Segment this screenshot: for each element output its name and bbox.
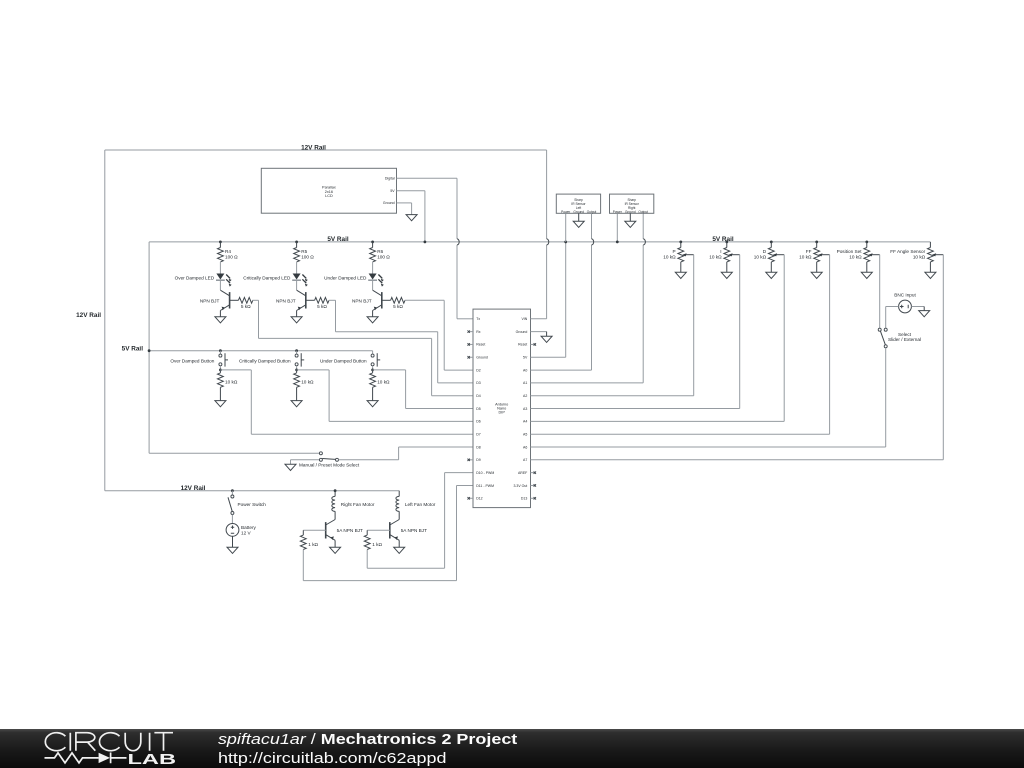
resistor R5 100 Ohm: [294, 242, 315, 262]
wire I pot to ground: [726, 262, 728, 272]
svg-text:10 kΩ: 10 kΩ: [709, 255, 722, 260]
junction 5V rail / button rail: [148, 349, 151, 352]
wire Sharp Left ground hook: [578, 213, 580, 221]
ground emitter ground (Critically Damped LED): [291, 317, 302, 323]
label Left Fan Motor: [405, 502, 436, 507]
svg-text:R5: R5: [301, 249, 307, 254]
label Sharp IR Sensor Right: [625, 198, 640, 210]
svg-text:Manual / Preset Mode Select: Manual / Preset Mode Select: [299, 462, 360, 467]
junction P pot at 5V rail: [679, 241, 682, 244]
svg-text:A1: A1: [523, 381, 527, 385]
ground I pot ground: [721, 272, 732, 278]
node 5V Rail (button rail wire): [149, 350, 373, 352]
junction Position Set pot at 5V rail: [865, 241, 868, 244]
resistor 1 kOhm base (Right Fan Motor): [300, 530, 318, 549]
junction Over Damped Button output: [219, 369, 222, 372]
svg-text:R6: R6: [377, 249, 383, 254]
svg-text:100 Ω: 100 Ω: [301, 255, 314, 260]
label Select Slider / External: [888, 332, 921, 342]
wire FF Angle Sensor pot to ground: [929, 262, 931, 272]
svg-text:Under Damped LED: Under Damped LED: [324, 275, 367, 280]
svg-text:VIN: VIN: [521, 317, 527, 321]
label Sharp IR Sensor Left: [571, 198, 586, 210]
svg-text:Ground: Ground: [383, 201, 395, 205]
wire battery to ground: [232, 536, 234, 547]
label Right Fan Motor: [341, 502, 375, 507]
svg-text:12V Rail: 12V Rail: [181, 485, 206, 492]
wire I wiper to chip: [531, 255, 740, 409]
resistor 10 kOhm pulldown (Over Damped Button): [218, 370, 238, 387]
ground emitter ground (Over Damped LED): [215, 317, 226, 323]
svg-text:P: P: [672, 249, 675, 254]
wire BJT1 base to D4 route: [252, 300, 473, 395]
hop Digital wire over 5V rail: [457, 239, 459, 245]
wire Position Set pot to ground: [866, 262, 868, 272]
svg-text:5V Rail: 5V Rail: [122, 345, 144, 352]
potentiometer Position Set 10 kOhm: [864, 242, 880, 262]
transistor 5A NPN BJT (Left Fan Motor): [390, 520, 399, 541]
svg-text:Rx: Rx: [476, 330, 481, 334]
ground LCD ground symbol: [406, 215, 417, 221]
ground pulldown ground (Critically Damped Button): [291, 401, 302, 407]
svg-text:Slider / External: Slider / External: [888, 337, 921, 342]
hop Sharp Right output over 5V rail: [643, 239, 645, 245]
svg-text:DIP: DIP: [499, 411, 506, 415]
junction R5 at 5V rail: [295, 241, 298, 244]
svg-text:10 kΩ: 10 kΩ: [301, 379, 314, 384]
pin labels U1 right side: [513, 317, 536, 500]
svg-text:Critically Damped Button: Critically Damped Button: [239, 358, 291, 363]
label I pot: [709, 249, 722, 260]
node 5V Rail label right: [712, 236, 734, 243]
svg-text:A4: A4: [523, 420, 527, 424]
wire base wire (Left Fan Motor): [367, 529, 390, 531]
svg-text:D4: D4: [476, 394, 481, 398]
svg-text:Critically Damped LED: Critically Damped LED: [243, 275, 291, 280]
wire base wire (Right Fan Motor): [303, 529, 325, 531]
label Power Switch: [238, 502, 267, 507]
resistor R4 100 Ohm: [218, 242, 239, 262]
label D pot: [754, 249, 767, 260]
svg-text:5A NPN BJT: 5A NPN BJT: [401, 528, 427, 533]
wire power switch to battery: [231, 515, 233, 524]
svg-text:Reset: Reset: [476, 343, 485, 347]
wire pulldown to ground (Critically Damped Button): [296, 387, 298, 400]
svg-text:Over Damped LED: Over Damped LED: [175, 275, 215, 280]
wire Over Damped Button to chip: [220, 370, 473, 434]
label Position Set pot: [837, 249, 863, 260]
transistor NPN BJT (Over Damped LED driver): [220, 290, 229, 310]
wire chip 5V to 5V rail: [531, 242, 566, 357]
wire LCD Ground hook: [397, 203, 412, 215]
svg-text:10 kΩ: 10 kΩ: [377, 379, 390, 384]
svg-text:R4: R4: [225, 249, 231, 254]
label Over Damped Button: [170, 358, 214, 363]
svg-text:http://circuitlab.com/c62appd: http://circuitlab.com/c62appd: [218, 750, 447, 766]
wire FF wiper to chip: [531, 255, 830, 435]
junction Right Fan Motor at 12V rail: [334, 489, 337, 492]
svg-text:D5: D5: [476, 407, 481, 411]
junction LCD 5V at rail: [424, 241, 427, 244]
wire 5V vertical x=149 (rail to rail to mode switch): [148, 242, 150, 453]
wire base resistor to chip (Left Fan Motor): [367, 473, 473, 569]
label 5A NPN BJT (Left Fan Motor): [401, 528, 427, 533]
junction button rail at Critically Damped Button: [295, 349, 298, 352]
svg-text:10 kΩ: 10 kΩ: [225, 379, 238, 384]
wire Sharp Right power to 5V rail: [616, 213, 618, 242]
wire VIN to 12V rail: [531, 150, 547, 319]
junction I pot at 5V rail: [725, 241, 728, 244]
wire 5V to mode switch: [149, 452, 319, 454]
label NPN BJT (Under Damped LED): [352, 298, 372, 303]
svg-text:Left Fan Motor: Left Fan Motor: [405, 502, 436, 507]
potentiometer D 10 kOhm: [768, 242, 784, 262]
wire LED Critically Damped LED to BJT collector: [296, 281, 298, 290]
wire D wiper to chip: [531, 255, 785, 422]
svg-text:5 kΩ: 5 kΩ: [241, 304, 251, 309]
ground FF Angle Sensor pot ground: [925, 272, 936, 278]
pin labels Sharp Left: [561, 210, 596, 214]
node 5V Rail button-rail label: [122, 345, 144, 352]
ground emitter ground (Right Fan Motor): [330, 547, 341, 553]
ground emitter ground (Under Damped LED): [367, 317, 378, 323]
wire Sharp Right output to chip: [531, 213, 644, 383]
junction D pot at 5V rail: [770, 241, 773, 244]
svg-text:NPN BJT: NPN BJT: [352, 298, 372, 303]
junction chip 5V / sensor power at rail: [564, 241, 567, 244]
resistor 5 kOhm base resistor (Critically Damped LED): [306, 297, 329, 309]
svg-text:5 kΩ: 5 kΩ: [393, 304, 403, 309]
pin Ground of LCD: [383, 201, 395, 205]
label NPN BJT (Over Damped LED): [200, 298, 220, 303]
logo LAB text: [127, 752, 176, 768]
switch Critically Damped Button: [295, 351, 304, 367]
ground pulldown ground (Under Damped Button): [367, 401, 378, 407]
svg-text:5A NPN BJT: 5A NPN BJT: [337, 528, 363, 533]
resistor 10 kOhm pulldown (Critically Damped Button): [294, 370, 314, 387]
svg-text:D11 - PWM: D11 - PWM: [476, 484, 494, 488]
junction FF pot at 5V rail: [815, 241, 818, 244]
source V1 Battery 12 V: [226, 524, 239, 537]
svg-text:D7: D7: [476, 432, 481, 436]
svg-text:D2: D2: [476, 368, 481, 372]
ground D pot ground: [766, 272, 777, 278]
svg-text:Digital: Digital: [385, 177, 395, 181]
svg-text:10 kΩ: 10 kΩ: [754, 255, 767, 260]
wire BNC plus to selector switch: [886, 307, 899, 329]
label FF Angle Sensor pot: [890, 249, 925, 260]
label Under Damped LED: [324, 275, 367, 280]
node 5V Rail label left-center: [327, 236, 349, 243]
switch Over Damped Button: [219, 351, 228, 367]
logo resistor-diode glyph: [45, 753, 127, 764]
svg-text:NPN BJT: NPN BJT: [200, 298, 220, 303]
potentiometer FF 10 kOhm: [814, 242, 830, 262]
svg-text:Power Switch: Power Switch: [238, 502, 267, 507]
svg-text:FF: FF: [806, 249, 812, 254]
svg-text:Position Set: Position Set: [837, 249, 863, 254]
resistor 1 kOhm base (Left Fan Motor): [364, 530, 382, 549]
wire Under Damped Button to resistor: [372, 366, 374, 370]
wire FF Angle Sensor wiper to chip: [531, 255, 944, 460]
label BNC Input: [894, 293, 916, 298]
wire 12V rail bottom: [105, 490, 399, 492]
junction Critically Damped Button output: [295, 369, 298, 372]
svg-text:D10 - PWM: D10 - PWM: [476, 471, 494, 475]
label Critically Damped Button: [239, 358, 291, 363]
wire R5 to LED: [296, 262, 298, 274]
resistor 5 kOhm base resistor (Over Damped LED): [230, 297, 253, 309]
label P pot: [663, 249, 676, 260]
svg-text:Over Damped Button: Over Damped Button: [170, 358, 214, 363]
wire Critically Damped Button to chip: [297, 370, 473, 422]
svg-text:12V Rail: 12V Rail: [301, 145, 326, 152]
ground P pot ground: [675, 272, 686, 278]
wire LCD Digital to Tx vertical: [397, 178, 474, 318]
svg-text:D13: D13: [521, 497, 527, 501]
wire Sharp Left power to 5V rail: [565, 213, 567, 242]
transistor 5A NPN BJT (Right Fan Motor): [326, 520, 335, 541]
wire P wiper to chip: [531, 255, 694, 396]
wire LED Over Damped LED to BJT collector: [219, 281, 221, 290]
wire BJT2 base to D3 route: [329, 300, 473, 383]
inductor Left Fan Motor: [396, 491, 399, 520]
svg-text:D12: D12: [476, 497, 482, 501]
svg-text:FF Angle Sensor: FF Angle Sensor: [890, 249, 925, 254]
wire R6 to LED: [372, 262, 374, 274]
svg-text:Reset: Reset: [518, 343, 527, 347]
IC Sharp IR Sensor Right box: [610, 194, 654, 213]
svg-text:A3: A3: [523, 407, 527, 411]
svg-text:I: I: [720, 249, 721, 254]
label FF pot: [799, 249, 812, 260]
svg-text:A7: A7: [523, 458, 527, 462]
svg-text:Under Damped Button: Under Damped Button: [320, 358, 367, 363]
svg-text:1 kΩ: 1 kΩ: [308, 542, 318, 547]
ground BNC ground: [919, 311, 930, 317]
ground Sharp Left ground: [573, 221, 584, 227]
junction Sharp Right power at rail: [616, 241, 619, 244]
node 12V Rail (top rail wire): [105, 149, 547, 151]
svg-text:3.3V Out: 3.3V Out: [513, 484, 527, 488]
svg-text:D3: D3: [476, 381, 481, 385]
svg-text:5V Rail: 5V Rail: [712, 236, 734, 243]
switch Power Switch: [228, 491, 234, 515]
svg-text:AREF: AREF: [518, 471, 527, 475]
svg-text:Ground: Ground: [516, 330, 528, 334]
switch Select Slider / External: [878, 328, 887, 348]
LED Over Damped LED: [216, 274, 232, 287]
pin 5V of LCD: [390, 189, 395, 193]
wire pulldown to ground (Over Damped Button): [219, 387, 221, 400]
svg-text:LCD: LCD: [325, 194, 333, 198]
wire Over Damped Button to resistor: [219, 366, 221, 370]
wire Sharp Right ground hook: [629, 213, 631, 221]
switch Manual / Preset Mode Select: [319, 452, 338, 462]
wire Critically Damped Button to resistor: [296, 366, 298, 370]
junction button rail at Over Damped Button: [219, 349, 222, 352]
inductor Right Fan Motor: [332, 491, 335, 520]
pin labels U1 left side: [468, 317, 495, 500]
svg-text:5V: 5V: [523, 356, 528, 360]
hop Sharp Left output over 5V rail: [592, 239, 594, 245]
node 12V Rail left label: [76, 312, 101, 319]
footer bar: [0, 729, 1024, 768]
wire LED Under Damped LED to BJT collector: [372, 281, 374, 290]
wire Position Set wiper to selector switch: [879, 255, 881, 329]
junction R6 at 5V rail: [371, 241, 374, 244]
ground emitter ground (Left Fan Motor): [394, 547, 405, 553]
svg-text:100 Ω: 100 Ω: [225, 255, 238, 260]
potentiometer P 10 kOhm: [678, 242, 694, 262]
resistor 5 kOhm base resistor (Under Damped LED): [382, 297, 405, 309]
wire chip Ground to ground symbol: [531, 332, 547, 337]
junction Under Damped Button output: [371, 369, 374, 372]
pin Digital of LCD: [385, 177, 395, 181]
wire BJT3 base to D2 route: [405, 300, 473, 370]
potentiometer I 10 kOhm: [724, 242, 740, 262]
svg-text:Right Fan Motor: Right Fan Motor: [341, 502, 375, 507]
svg-text:5V Rail: 5V Rail: [327, 236, 349, 243]
wire Sharp Left output to chip: [531, 213, 592, 370]
ground chip ground symbol: [541, 336, 552, 342]
ground Position Set pot ground: [861, 272, 872, 278]
wire Under Damped Button to chip: [373, 370, 473, 409]
svg-text:12 V: 12 V: [241, 530, 252, 535]
switch Under Damped Button: [371, 351, 380, 367]
label LCD center text: [322, 186, 336, 198]
svg-text:A6: A6: [523, 445, 527, 449]
svg-text:A0: A0: [523, 368, 527, 372]
svg-text:10 kΩ: 10 kΩ: [663, 255, 676, 260]
svg-text:5V: 5V: [390, 189, 395, 193]
resistor R6 100 Ohm: [370, 242, 391, 262]
svg-text:D8: D8: [476, 445, 481, 449]
svg-text:100 Ω: 100 Ω: [377, 255, 390, 260]
transistor NPN BJT (Under Damped LED driver): [373, 290, 382, 310]
wire BNC minus to ground: [911, 307, 924, 311]
IC Sharp IR Sensor Left box: [556, 194, 600, 213]
svg-text:LAB: LAB: [127, 752, 176, 768]
wire R4 to LED: [219, 262, 221, 274]
junction R4 at 5V rail: [219, 241, 222, 244]
ground mode switch ground: [285, 464, 296, 470]
label Battery 12 V: [241, 525, 257, 535]
svg-text:10 kΩ: 10 kΩ: [913, 255, 926, 260]
junction power switch at 12V rail: [231, 489, 234, 492]
label 5A NPN BJT (Right Fan Motor): [337, 528, 363, 533]
ground FF pot ground: [811, 272, 822, 278]
ground pulldown ground (Over Damped Button): [215, 401, 226, 407]
transistor NPN BJT (Critically Damped LED driver): [297, 290, 306, 310]
svg-text:A2: A2: [523, 394, 527, 398]
wire 12V rail left vertical: [104, 150, 106, 491]
label Under Damped Button: [320, 358, 367, 363]
wire LCD 5V to 5V rail: [397, 191, 425, 242]
node 5V Rail (top rail wire): [149, 241, 930, 243]
svg-text:Tx: Tx: [476, 317, 480, 321]
svg-text:5 kΩ: 5 kΩ: [317, 304, 327, 309]
wire selector common to A6: [531, 348, 886, 447]
IC LCD1 Parallax 2x16 LCD box: [261, 168, 396, 213]
svg-text:1 kΩ: 1 kΩ: [372, 542, 382, 547]
wire emitter to ground (Left Fan Motor): [398, 540, 400, 547]
LED Under Damped LED: [368, 274, 384, 287]
ground Sharp Right ground: [625, 221, 636, 227]
node 12V Rail bottom label: [181, 485, 206, 492]
hop VIN wire over 5V rail: [547, 239, 549, 245]
footer title spiftacu1ar / Mechatronics 2 Project: [218, 731, 518, 747]
svg-text:Ground: Ground: [476, 356, 488, 360]
footer url: [218, 750, 447, 766]
node 12V Rail top label: [301, 145, 326, 152]
LED Critically Damped LED: [292, 274, 308, 287]
wire base resistor to chip (Right Fan Motor): [303, 486, 473, 581]
svg-text:12V Rail: 12V Rail: [76, 312, 101, 319]
svg-text:NPN BJT: NPN BJT: [276, 298, 296, 303]
wire emitter to ground (Over Damped LED): [219, 311, 221, 317]
wire P pot to ground: [680, 262, 682, 272]
ground battery ground: [227, 547, 238, 553]
logo CIRCUIT wordmark: [45, 733, 173, 751]
pin labels Sharp Right: [613, 210, 648, 214]
wire mode switch to D8: [339, 447, 474, 460]
label Manual / Preset Mode Select: [299, 462, 360, 467]
svg-text:D6: D6: [476, 420, 481, 424]
svg-text:spiftacu1ar / Mechatronics 2 P: spiftacu1ar / Mechatronics 2 Project: [218, 731, 518, 747]
wire pulldown to ground (Under Damped Button): [372, 387, 374, 400]
label Arduino Nano DIP: [495, 402, 508, 414]
wire emitter to ground (Under Damped LED): [372, 311, 374, 317]
svg-text:A5: A5: [523, 432, 527, 436]
svg-text:10 kΩ: 10 kΩ: [799, 255, 812, 260]
wire D pot to ground: [770, 262, 772, 272]
label Critically Damped LED: [243, 275, 291, 280]
svg-text:BNC Input: BNC Input: [894, 293, 916, 298]
wire mode switch ground hook: [291, 460, 320, 465]
IC U1 Arduino Nano DIP box: [473, 309, 531, 508]
svg-text:D9: D9: [476, 458, 481, 462]
wire emitter to ground (Right Fan Motor): [334, 540, 336, 547]
potentiometer FF Angle Sensor 10 kOhm: [928, 242, 944, 262]
label Over Damped LED: [175, 275, 215, 280]
label NPN BJT (Critically Damped LED): [276, 298, 296, 303]
wire FF pot to ground: [816, 262, 818, 272]
svg-text:10 kΩ: 10 kΩ: [849, 255, 862, 260]
resistor 10 kOhm pulldown (Under Damped Button): [370, 370, 390, 387]
source BNC Input: [899, 300, 912, 313]
wire emitter to ground (Critically Damped LED): [296, 311, 298, 317]
